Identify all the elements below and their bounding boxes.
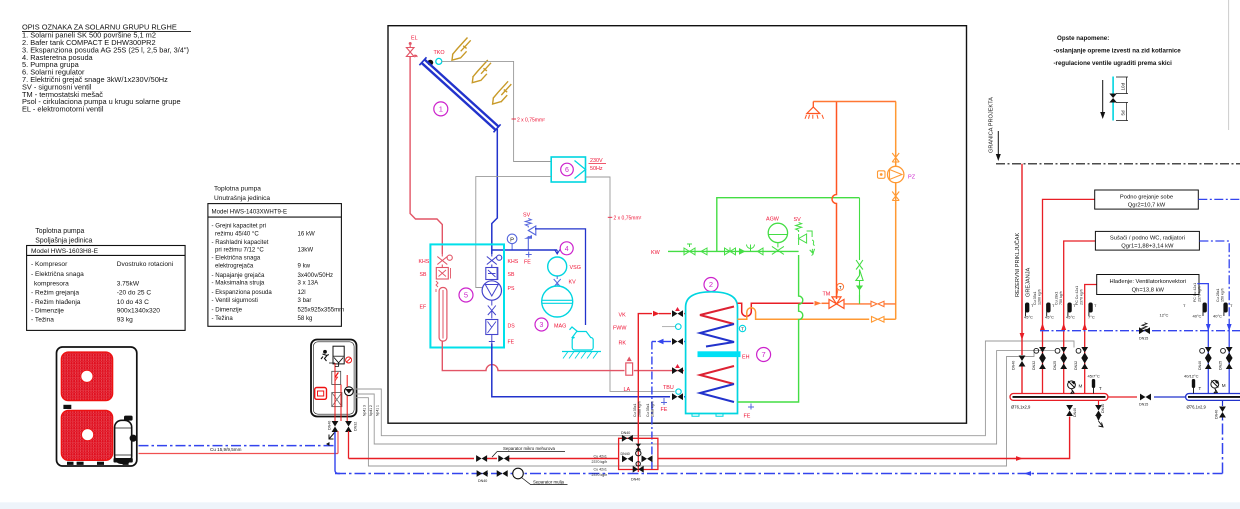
svg-text:2: 2: [709, 280, 713, 289]
control panel: [315, 388, 327, 400]
sun ray arrow: [472, 60, 491, 83]
svg-text:DN25: DN25: [1053, 361, 1057, 370]
cold feed to tank bottom (green): [738, 255, 803, 402]
svg-text:DN40: DN40: [478, 479, 487, 483]
svg-text:2 x 0,75mm²: 2 x 0,75mm²: [517, 117, 545, 123]
svg-text:DN40: DN40: [621, 452, 630, 456]
svg-text:- Dimenzije: - Dimenzije: [31, 308, 64, 315]
heating supply main (red): [349, 417, 1070, 459]
riser thermometers: [1026, 303, 1093, 316]
supply arrows up: [1040, 323, 1087, 330]
svg-text:M: M: [1079, 384, 1083, 389]
svg-text:12l: 12l: [298, 289, 306, 296]
svg-text:150 kg/h: 150 kg/h: [1221, 288, 1225, 302]
svg-text:- Težina: - Težina: [31, 317, 54, 324]
svg-text:PZ: PZ: [908, 174, 916, 180]
wire regulator to pump: [476, 177, 551, 288]
left strand EF heater vessel: [439, 288, 447, 342]
svg-text:FE: FE: [508, 340, 515, 346]
svg-text:45/7°C: 45/7°C: [1088, 374, 1100, 379]
svg-text:FE: FE: [744, 414, 751, 420]
legend title: [22, 23, 191, 114]
indoor hydro unit body: [311, 340, 357, 417]
solar expansion line blue: [492, 249, 557, 251]
svg-text:T: T: [1099, 386, 1102, 391]
svg-text:Podno grejanje sobe: Podno grejanje sobe: [1120, 194, 1173, 200]
sun ray arrow: [493, 81, 512, 104]
svg-text:900x1340x320: 900x1340x320: [117, 308, 161, 315]
svg-text:KHS: KHS: [419, 259, 430, 265]
right strand DS regulator: [486, 320, 498, 335]
mixed water riser to shower: [832, 102, 837, 300]
DHW green drop joins mixing line: [859, 295, 861, 304]
svg-text:M: M: [1222, 383, 1226, 388]
KW bypass riser: [717, 198, 860, 252]
solar return from tank (blue): [492, 344, 686, 397]
svg-text:- Ventil sigurnosti: - Ventil sigurnosti: [212, 297, 258, 304]
svg-text:-regulacione ventile ugraditi: -regulacione ventile ugraditi prema skic…: [1054, 60, 1173, 67]
svg-text:Toplotna pumpa: Toplotna pumpa: [35, 228, 84, 235]
top coil blue: [700, 324, 734, 347]
svg-text:režimu 45/40 °C: režimu 45/40 °C: [215, 230, 259, 237]
manifold link valve DN15: [1108, 396, 1137, 398]
indoor pump: [345, 387, 354, 396]
svg-text:93 kg: 93 kg: [117, 317, 133, 324]
refrigerant gas line (dash-dot blue): [139, 445, 336, 447]
svg-text:Separator mulja: Separator mulja: [533, 480, 565, 485]
svg-text:Hlađenje: Ventilatorkonvektori: Hlađenje: Ventilatorkonvektori: [1109, 279, 1186, 285]
svg-text:- Rashladni kapacitet: - Rashladni kapacitet: [212, 239, 269, 246]
circle 4: [560, 242, 573, 255]
svg-text:- Dimenzije: - Dimenzije: [212, 306, 243, 313]
fan coil return: [1197, 284, 1208, 394]
air separator LA: [627, 357, 632, 362]
svg-text:40/12°C: 40/12°C: [1184, 374, 1199, 379]
general notes: [1054, 35, 1182, 67]
svg-text:Toplotna pumpa: Toplotna pumpa: [214, 185, 261, 192]
DHW cold riser valve: [856, 198, 863, 270]
svg-text:45°C: 45°C: [1045, 315, 1054, 320]
svg-text:45°C: 45°C: [1066, 315, 1075, 320]
svg-text:SV: SV: [523, 213, 531, 219]
svg-text:- Težina: - Težina: [212, 315, 234, 322]
bottom coil red: [700, 366, 734, 384]
right strand check valve: [488, 300, 496, 318]
electric heater box with bolt: [332, 371, 341, 384]
svg-text:Spoljašnja jedinica: Spoljašnja jedinica: [35, 237, 92, 244]
svg-text:AGW: AGW: [766, 217, 780, 223]
KW shutoff valve: [684, 244, 695, 255]
svg-text:KW: KW: [651, 250, 661, 256]
sheet edge line: [1228, 0, 1230, 130]
svg-text:2370 kg/h: 2370 kg/h: [592, 473, 608, 477]
heating return main (blue dash-dot): [335, 420, 1223, 474]
return dash-dot from radiators: [1199, 241, 1229, 320]
PZ valve top: [892, 150, 899, 162]
solar regulator 6: [551, 157, 585, 182]
pressure gauge P: [507, 234, 517, 244]
svg-text:750 kg/h: 750 kg/h: [1059, 291, 1063, 305]
load box radiators: [1095, 231, 1199, 250]
svg-text:VK: VK: [619, 312, 627, 318]
svg-text:DN32: DN32: [1032, 361, 1036, 370]
svg-text:Qh=13,8 kW: Qh=13,8 kW: [1132, 288, 1165, 294]
PZ valve bottom: [892, 189, 899, 201]
svg-text:LA: LA: [624, 387, 631, 393]
return manifold (blue): [1186, 394, 1240, 401]
isolation valve red DN32: [345, 421, 352, 432]
wire label 2 x 0,75mm2: [512, 118, 517, 120]
shower head: [813, 101, 896, 103]
circulation return loop (orange): [738, 308, 896, 320]
expansion vessel MAG 3: [542, 286, 573, 317]
return dash-dot from floor heating: [1198, 198, 1240, 200]
svg-text:2370 kg/h: 2370 kg/h: [1198, 286, 1202, 302]
svg-text:kompresora: kompresora: [34, 281, 69, 288]
KW valve pair: [725, 247, 736, 254]
svg-text:9 kw: 9 kw: [298, 262, 311, 269]
right strand SB meter: [486, 268, 498, 280]
outdoor unit feet: [67, 462, 74, 465]
table heat pump outdoor: [27, 246, 186, 331]
svg-text:16 kW: 16 kW: [298, 230, 316, 237]
svg-text:Sušači / podno WC, radijatori: Sušači / podno WC, radijatori: [1110, 236, 1185, 242]
svg-text:3x400v/50Hz: 3x400v/50Hz: [298, 272, 334, 279]
svg-text:13kW: 13kW: [298, 247, 314, 254]
svg-text:230V: 230V: [590, 158, 603, 164]
svg-text:Separator mikro mehurova: Separator mikro mehurova: [503, 446, 556, 451]
left strand sensor: [436, 281, 438, 292]
svg-text:2370 kg/h: 2370 kg/h: [592, 460, 608, 464]
svg-text:TM: TM: [823, 292, 831, 298]
isolation valve blue DN40: [332, 421, 339, 432]
electric heater EH 7: [698, 351, 741, 357]
blue riser valves: [1200, 347, 1233, 369]
strainer on suction: [329, 432, 335, 439]
discharge can: [570, 327, 594, 350]
drain hatch ground: [562, 351, 601, 353]
svg-text:2 x 0,75mm²: 2 x 0,75mm²: [614, 216, 642, 222]
svg-text:DN40: DN40: [631, 478, 640, 482]
FE fill-empty tap: [526, 252, 532, 258]
FE on solar return: [661, 398, 667, 405]
svg-text:Unutrašnja jedinica: Unutrašnja jedinica: [214, 195, 270, 202]
refrigerant connections: [337, 431, 339, 454]
floor heating circuit riser: [1043, 199, 1095, 393]
circulation pump PZ line: [895, 102, 897, 320]
project boundary line (dash-dot): [996, 163, 1240, 165]
return manifold pump: [1211, 380, 1219, 388]
svg-text:DN25: DN25: [1219, 361, 1223, 370]
bottom band: [0, 502, 1240, 509]
riser pipe labels: [1033, 286, 1084, 305]
left strand SB flow meter: [436, 268, 448, 280]
sensor wires to manifolds: [356, 341, 1074, 436]
relief vessel VSG: [548, 257, 567, 276]
svg-text:Cu 15,9/9,5mm: Cu 15,9/9,5mm: [210, 447, 242, 452]
bottom coil blue: [700, 384, 734, 402]
svg-text:525x925x355mm: 525x925x355mm: [298, 306, 345, 313]
svg-text:Opste napomene:: Opste napomene:: [1057, 35, 1109, 42]
fan coil circuit riser: [1085, 285, 1097, 394]
micro bubble separator valves: [476, 455, 509, 462]
svg-text:SB: SB: [508, 272, 515, 278]
svg-text:- Električna snaga: - Električna snaga: [212, 255, 261, 262]
svg-text:Cu 42x1: Cu 42x1: [594, 455, 607, 459]
manifold drain: [1098, 400, 1100, 405]
svg-text:DN40: DN40: [1073, 408, 1077, 417]
tank inlet valve solar: [672, 367, 683, 374]
reserve heating riser: [1021, 164, 1023, 355]
KW pressure reducer: [739, 248, 746, 255]
svg-text:Np41 2: Np41 2: [369, 405, 373, 416]
riser balancing valves: [1034, 347, 1088, 369]
svg-text:Ø76,1x2,9: Ø76,1x2,9: [1011, 405, 1031, 410]
svg-text:Qgr2=10,7 kW: Qgr2=10,7 kW: [1128, 202, 1166, 208]
svg-text:Dvostruko rotacioni: Dvostruko rotacioni: [117, 261, 174, 268]
fan coil riser thermometers: [1203, 303, 1227, 316]
svg-text:DN40: DN40: [1012, 361, 1016, 370]
PZ pump: [888, 166, 904, 182]
svg-text:5: 5: [464, 291, 468, 300]
sun ray arrow: [452, 38, 471, 61]
manifold inlet valve: [1066, 405, 1073, 416]
valve mounting detail: [1102, 80, 1104, 114]
svg-text:P: P: [510, 237, 514, 243]
buffer tank 2: [704, 278, 718, 292]
TBU sensor: [676, 389, 681, 394]
outdoor label plate: [63, 405, 71, 409]
svg-text:DN40: DN40: [1215, 410, 1219, 419]
DHW outlet with expansion loop (red): [738, 303, 814, 316]
svg-text:FC Cu 42x1: FC Cu 42x1: [1075, 286, 1079, 305]
svg-text:EL - elektromotorni ventil: EL - elektromotorni ventil: [22, 105, 104, 114]
KW check valve: [701, 248, 707, 255]
system boundary box: [388, 26, 967, 424]
svg-text:-oslanjanje opreme izvesti na: -oslanjanje opreme izvesti na zid kotlar…: [1054, 48, 1182, 55]
svg-text:3 x 13A: 3 x 13A: [298, 280, 320, 287]
svg-text:1200 kg/h: 1200 kg/h: [1038, 289, 1042, 305]
internal pipes: [335, 363, 347, 421]
svg-text:2088 kg/h: 2088 kg/h: [651, 401, 655, 417]
svg-text:DN32: DN32: [1074, 361, 1078, 370]
svg-text:KV: KV: [569, 280, 577, 286]
outdoor fan top: [61, 352, 112, 400]
svg-text:GREJANJA: GREJANJA: [1026, 268, 1032, 297]
svg-text:3 bar: 3 bar: [298, 297, 312, 304]
DN15 regulating valve on cooling line: [1139, 327, 1150, 334]
supply manifold (red): [1010, 394, 1108, 401]
FE on cold feed: [748, 404, 754, 410]
svg-text:- Napajanje grejača: - Napajanje grejača: [212, 272, 265, 279]
svg-text:DN15: DN15: [1139, 403, 1148, 407]
left strand KHS valve red: [437, 254, 452, 268]
svg-text:Qgr1=1,88+3,14 kW: Qgr1=1,88+3,14 kW: [1121, 244, 1174, 250]
svg-text:40°C: 40°C: [1193, 314, 1202, 319]
svg-text:FE: FE: [524, 260, 531, 266]
balancing cross assembly: [619, 438, 658, 469]
sludge separator: [513, 468, 524, 479]
svg-text:PS: PS: [508, 286, 515, 292]
svg-text:EF: EF: [420, 305, 427, 311]
svg-text:FWW: FWW: [613, 326, 627, 332]
return arrows down: [1206, 324, 1232, 331]
manifold thermometer: [1093, 385, 1095, 394]
svg-text:DS: DS: [508, 324, 516, 330]
circulation temp sensor on tank right: [739, 325, 745, 331]
refrigerant liquid line (red): [139, 453, 339, 455]
indoor expansion tank box: [333, 346, 344, 364]
red prohibition circle: [346, 357, 352, 363]
valve KV: [554, 276, 561, 287]
table heat pump indoor: [208, 204, 342, 327]
svg-text:2370 kg/h: 2370 kg/h: [1080, 289, 1084, 305]
cross valves: [622, 455, 653, 462]
sludge separator valves: [477, 470, 508, 477]
svg-text:REZERVNI PRIKLJUČAK: REZERVNI PRIKLJUČAK: [1014, 232, 1021, 297]
svg-text:Ø76,1x2,9: Ø76,1x2,9: [1187, 405, 1207, 410]
svg-text:3: 3: [540, 322, 544, 329]
svg-text:- Grejni kapacitet pri: - Grejni kapacitet pri: [212, 223, 267, 230]
svg-text:40°C: 40°C: [1213, 314, 1222, 319]
svg-text:Cu 42x1: Cu 42x1: [594, 468, 607, 472]
svg-text:Np41 3: Np41 3: [363, 405, 367, 416]
svg-text:FE: FE: [661, 407, 668, 413]
right strand FE: [489, 335, 495, 344]
svg-text:12°C: 12°C: [1160, 313, 1169, 318]
plate heat exchanger: [332, 393, 342, 407]
svg-text:T: T: [741, 327, 744, 332]
compressor: [124, 416, 133, 421]
svg-text:FC Cu 42x1: FC Cu 42x1: [1193, 283, 1197, 302]
pump group box 5: [430, 244, 504, 347]
svg-text:2088 kg/h: 2088 kg/h: [638, 401, 642, 417]
svg-text:58 kg: 58 kg: [298, 315, 313, 322]
svg-text:pri režimu 7/12 °C: pri režimu 7/12 °C: [215, 247, 264, 254]
svg-text:VSG: VSG: [570, 265, 581, 271]
svg-text:-20 do 25 C: -20 do 25 C: [117, 289, 152, 296]
svg-text:- Maksimalna struja: - Maksimalna struja: [212, 280, 265, 287]
svg-text:DN15: DN15: [1139, 337, 1148, 341]
svg-text:Cu 28x1: Cu 28x1: [1216, 289, 1220, 302]
table heat pump indoor label: [214, 185, 270, 202]
svg-text:Np41 1: Np41 1: [376, 405, 380, 416]
svg-text:10 do 43 C: 10 do 43 C: [117, 299, 149, 306]
load box floor heating: [1095, 190, 1199, 209]
svg-text:DN40: DN40: [621, 431, 630, 435]
svg-text:6: 6: [565, 167, 569, 174]
heating supply pipe down: [348, 431, 350, 459]
svg-text:Model HWS-1403XWHT9-E: Model HWS-1403XWHT9-E: [212, 208, 288, 215]
solar collector panel 1: [425, 60, 499, 127]
load box fan coils: [1097, 275, 1199, 295]
svg-text:DN40: DN40: [328, 421, 332, 430]
solar loop supply pipe (red): [410, 57, 442, 255]
radiator circuit riser: [1064, 241, 1096, 394]
collector circle 1: [434, 102, 448, 116]
svg-text:10d: 10d: [1121, 82, 1126, 90]
svg-text:elektrogrejača: elektrogrejača: [215, 262, 254, 269]
cooling dash-dot main: [1040, 330, 1240, 332]
svg-text:EL: EL: [411, 36, 418, 42]
svg-text:45°C: 45°C: [1024, 315, 1033, 320]
svg-text:- Električna snaga: - Električna snaga: [31, 271, 84, 278]
sensor wire TKO to regulator: [442, 61, 552, 161]
svg-text:Cu 35x1: Cu 35x1: [646, 404, 650, 417]
svg-text:- Kompresor: - Kompresor: [31, 261, 68, 268]
svg-text:DN32: DN32: [354, 422, 358, 431]
svg-text:SB: SB: [420, 272, 427, 278]
svg-text:T: T: [1199, 386, 1202, 391]
manifold pump: [1068, 381, 1076, 389]
svg-text:T: T: [839, 285, 842, 290]
svg-text:DN40: DN40: [1198, 361, 1202, 370]
svg-text:- Režim hlađenja: - Režim hlađenja: [31, 299, 81, 306]
svg-text:- Režim grejanja: - Režim grejanja: [31, 289, 79, 296]
svg-text:Cu 35x1: Cu 35x1: [1033, 292, 1037, 305]
svg-text:SV: SV: [794, 217, 802, 223]
svg-text:7°C: 7°C: [1088, 315, 1095, 320]
installer person icon: [323, 350, 327, 354]
right strand KHS valve: [487, 254, 502, 268]
solar pump PS: [482, 281, 501, 300]
svg-text:Cu 35x1: Cu 35x1: [633, 404, 637, 417]
svg-text:RK: RK: [619, 340, 627, 346]
svg-text:5d: 5d: [1121, 110, 1126, 116]
wire regulator to tank sensor: [586, 177, 675, 391]
solar supply to tank (red): [442, 341, 684, 371]
svg-text:EH: EH: [742, 354, 750, 360]
svg-text:GRANICA PROJEKTA: GRANICA PROJEKTA: [989, 97, 995, 153]
return manifold thermometer: [1193, 385, 1195, 394]
svg-text:Model HWS-1603H8-E: Model HWS-1603H8-E: [31, 248, 99, 255]
svg-text:KHS: KHS: [508, 259, 519, 265]
svg-text:3.75kW: 3.75kW: [117, 281, 140, 288]
svg-text:TKO: TKO: [434, 50, 445, 56]
svg-text:1: 1: [439, 105, 443, 114]
svg-text:4: 4: [565, 246, 569, 253]
outdoor heat pump unit body: [57, 347, 137, 466]
table heat pump outdoor label: [35, 228, 92, 244]
svg-text:MAG: MAG: [554, 324, 566, 330]
svg-text:7: 7: [762, 350, 766, 359]
return manifold drain valve: [1222, 400, 1224, 406]
svg-text:50Hz: 50Hz: [590, 166, 603, 172]
svg-text:TBU: TBU: [663, 385, 674, 391]
top coil red: [700, 307, 734, 325]
svg-text:DN40: DN40: [1101, 404, 1105, 413]
svg-text:Cu 28x1: Cu 28x1: [1055, 292, 1059, 305]
solar loop return pipe (blue): [492, 129, 498, 254]
outdoor fan bottom: [61, 411, 112, 461]
wire label 2 x 0,75mm2: [608, 216, 613, 218]
svg-text:- Ekspanziona posuda: - Ekspanziona posuda: [212, 289, 273, 296]
